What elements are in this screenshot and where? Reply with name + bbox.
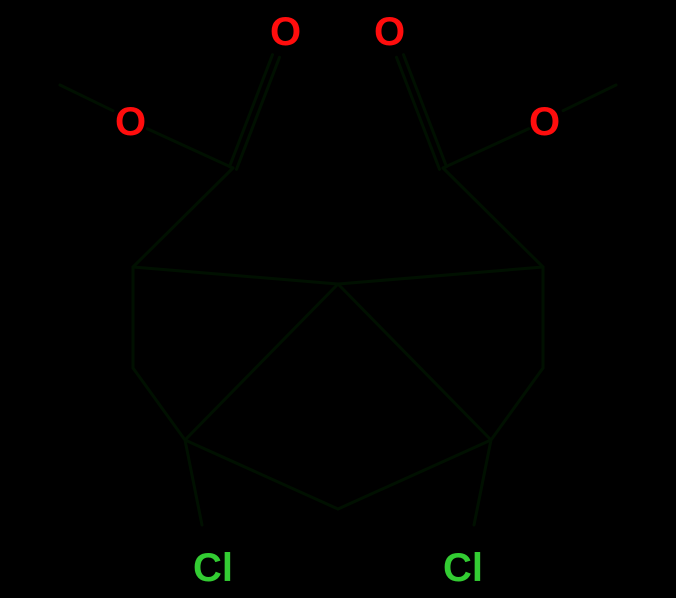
wire: C3' to C4' (right) (491, 368, 543, 440)
svg-text:O: O (270, 10, 301, 54)
wire: methyl CH3 to ester O (left) (60, 85, 113, 111)
wire: methyl CH3 to ester O (right) (563, 85, 616, 111)
wire: C4' to Cl (right) (474, 440, 491, 525)
wire: ester O to carbonyl C1' (right) (443, 129, 529, 168)
wire: ester O to carbonyl C1 (left) (147, 129, 233, 168)
wire: C4 to Cl (left) (185, 440, 202, 525)
wire: X to C4 (left) (185, 284, 338, 440)
svg-text:Cl: Cl (443, 546, 483, 590)
wire: C4 to C5 bottom center (left) (185, 440, 338, 509)
svg-text:Cl: Cl (193, 546, 233, 590)
wire: C1' to C2' (right) (443, 168, 543, 267)
wire: C1 to C2 (left) (133, 168, 233, 267)
svg-text:O: O (374, 10, 405, 54)
wire: C2 to C3 vertical (left) (132, 267, 135, 368)
wire: X to C4' (right) (338, 284, 491, 440)
wire: C1'=O double bond line a (right) (397, 57, 440, 169)
wire: C2' to C3' vertical (right) (542, 267, 545, 368)
wire: C2' to X center (right) (338, 267, 543, 284)
svg-text:O: O (529, 100, 560, 144)
wire: C1=O double bond line b (left) (230, 55, 273, 167)
wire: C2 to X center (left) (133, 267, 338, 284)
svg-text:O: O (115, 100, 146, 144)
wire: C1'=O double bond line b (right) (404, 55, 447, 167)
wire: C4' to C5 bottom center (right) (338, 440, 491, 509)
wire: C3 to C4 (left) (133, 368, 185, 440)
wire: C1=O double bond line a (left) (237, 57, 280, 169)
